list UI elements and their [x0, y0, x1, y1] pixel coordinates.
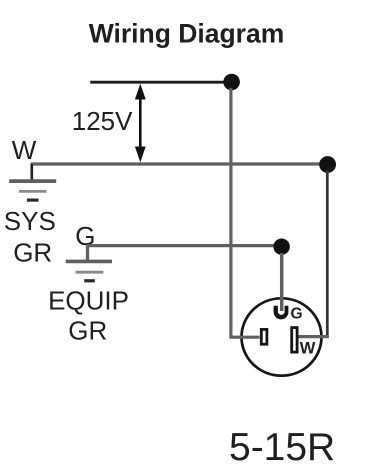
- svg-text:5-15R: 5-15R: [229, 426, 335, 469]
- wire: neutral (W) line: [31, 162, 328, 165]
- svg-text:EQUIP: EQUIP: [48, 286, 129, 316]
- svg-text:W: W: [300, 340, 316, 358]
- wire: stub from W line to system ground: [30, 164, 33, 180]
- wire: hot drop from dot 1 to left slot: [231, 88, 260, 337]
- ground symbol: equipment ground (EQUIP GR): [66, 260, 112, 264]
- slot: neutral (right, W): [292, 328, 297, 353]
- receptacle outline (5-15R face): [242, 298, 322, 375]
- dimension arrow 125V (double-headed): [139, 95, 142, 150]
- svg-text:Wiring Diagram: Wiring Diagram: [89, 19, 285, 49]
- svg-text:W: W: [12, 135, 37, 165]
- ground symbol: system ground (SYS GR): [9, 179, 56, 183]
- wire: ground (G) line: [87, 244, 282, 247]
- slot: hot (left): [261, 329, 267, 344]
- wire: ground drop from dot 3 to ground pin: [280, 253, 284, 311]
- svg-text:125V: 125V: [72, 106, 133, 136]
- junction dot 2 (neutral line): [319, 156, 336, 173]
- wire: top hot line (L): [90, 81, 231, 84]
- junction dot 3 (ground line): [273, 239, 289, 255]
- junction dot 1 (hot line): [223, 74, 240, 91]
- wire: neutral drop from dot 2 to W slot: [326, 170, 329, 335]
- svg-text:SYS: SYS: [4, 206, 56, 236]
- wire: stub from G line to equipment ground: [86, 246, 89, 261]
- svg-text:GR: GR: [68, 316, 107, 346]
- svg-text:GR: GR: [13, 238, 52, 268]
- ground pin opening (U shape): [274, 306, 289, 320]
- svg-text:G: G: [291, 305, 303, 322]
